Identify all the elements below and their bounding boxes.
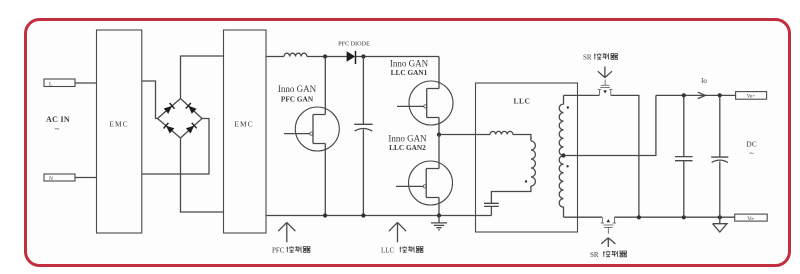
wire output positive rail [656,94,736,96]
transistor Q1 Inno GAN PFC GAN [278,57,339,216]
svg-text:LLC: LLC [381,247,395,255]
svg-text:Inno GAN: Inno GAN [388,134,427,144]
diode D4 (bridge bottom-right) [186,123,197,134]
svg-text:PFC GAN: PFC GAN [281,95,314,104]
PFC controller label with arrow [272,222,310,254]
node half-bridge midpoint [437,133,441,137]
svg-text:Inno GAN: Inno GAN [390,59,429,69]
node polarity dot secondary top [567,106,569,108]
svg-text:LLC GAN1: LLC GAN1 [391,68,428,77]
wire L to EMC1 [75,82,97,84]
diode D1 (bridge top-left) [164,103,175,114]
wire EMC1 to bridge left vertex [142,81,158,119]
svg-text:N: N [49,176,53,182]
node junction (C2 top) [682,93,686,97]
terminal L [44,79,75,88]
transistor Q4 SR top [598,80,613,96]
bridge rectifier diamond [158,99,203,139]
node polarity dot primary [525,180,527,182]
wire bridge top to EMC2 [181,56,224,99]
LLC controller label with arrow [381,222,423,254]
node junction (GAN2 source / ground) [437,213,441,217]
svg-text:SR: SR [590,251,599,259]
wire midpoint to resonant inductor [439,134,490,136]
svg-text:EMC: EMC [234,120,253,129]
node Io current arrow [698,77,708,99]
EMC block 2 [224,30,267,233]
terminal Vo- [735,214,768,222]
node junction (SR return) [637,215,641,219]
wire secondary bottom to SR fet [564,216,603,218]
svg-text:~: ~ [55,124,60,134]
inductor Lr (resonant) [490,131,513,134]
ground (primary power earth) [431,216,447,230]
terminal Vo+ [736,92,767,100]
wire top rail EMC2 to inductor [266,56,284,58]
svg-text:PFC DIODE: PFC DIODE [338,41,370,48]
wire secondary top to SR fet [564,94,600,96]
capacitor C2 output [675,95,693,217]
node junction (C2 bottom) [682,215,686,219]
transistor Q5 SR bottom [601,217,617,234]
svg-text:Vo+: Vo+ [747,94,756,100]
node junction (C3 bottom / chassis) [718,215,722,219]
EMC block 1 [97,30,142,233]
svg-text:Io: Io [701,77,707,85]
wire output negative rail [614,216,734,218]
transformer secondary winding [559,95,563,217]
transistor Q3 Inno GAN LLC GAN2 [388,134,452,216]
svg-text:LLC: LLC [514,97,531,106]
transformer primary winding [531,141,536,186]
svg-text:SR: SR [583,54,592,62]
node polarity dot secondary mid [566,165,568,167]
node center tap junction [561,153,565,157]
svg-text:Vo-: Vo- [747,216,755,222]
inductor L1 PFC choke [284,53,307,56]
capacitor C3 output (polarized) [711,95,728,217]
node junction (bus capacitor bottom) [361,213,365,217]
diode D2 (bridge top-right) [186,103,197,114]
diode D5 PFC DIODE [338,41,370,65]
wire EMC1 to bridge right vertex [142,119,209,175]
LLC block box [476,83,578,232]
wire Lr to primary [513,135,531,142]
wire center tap to output rail [564,95,656,155]
node junction (PFC source) [323,213,327,217]
terminal N [44,174,75,182]
SR controller label (top) with arrow [583,53,618,77]
node junction (bus capacitor top) [361,54,365,58]
svg-text:DC: DC [746,140,756,149]
capacitor C1 bus (polarized) [354,57,372,216]
wire DC bus diode to LLC GAN1 drain [356,56,440,58]
wire SR top source to negative rail [611,95,639,217]
wire bridge bottom to EMC2 [181,138,224,212]
ground chassis (output) [713,217,727,232]
wire inductor to PFC diode [307,56,347,58]
wire primary bottom to resonant cap [491,186,531,203]
svg-text:EMC: EMC [109,120,128,129]
node junction (PFC drain / diode anode) [323,54,327,58]
svg-text:Inno GAN: Inno GAN [278,84,317,94]
svg-text:AC IN: AC IN [46,115,70,124]
wire bottom rail EMC2 to resonant cap [266,215,491,217]
diode D3 (bridge bottom-left) [164,123,175,134]
capacitor Cr (resonant) [484,203,499,215]
node DC label [746,140,756,159]
transistor Q2 Inno GAN LLC GAN1 [390,57,453,135]
node AC IN [46,115,70,134]
svg-text:~: ~ [749,149,754,158]
SR controller label (bottom) with arrow [590,238,627,259]
wire N to EMC1 [75,177,97,179]
svg-text:PFC: PFC [272,247,285,255]
node junction (C3 top) [718,93,722,97]
svg-text:LLC GAN2: LLC GAN2 [389,143,426,152]
